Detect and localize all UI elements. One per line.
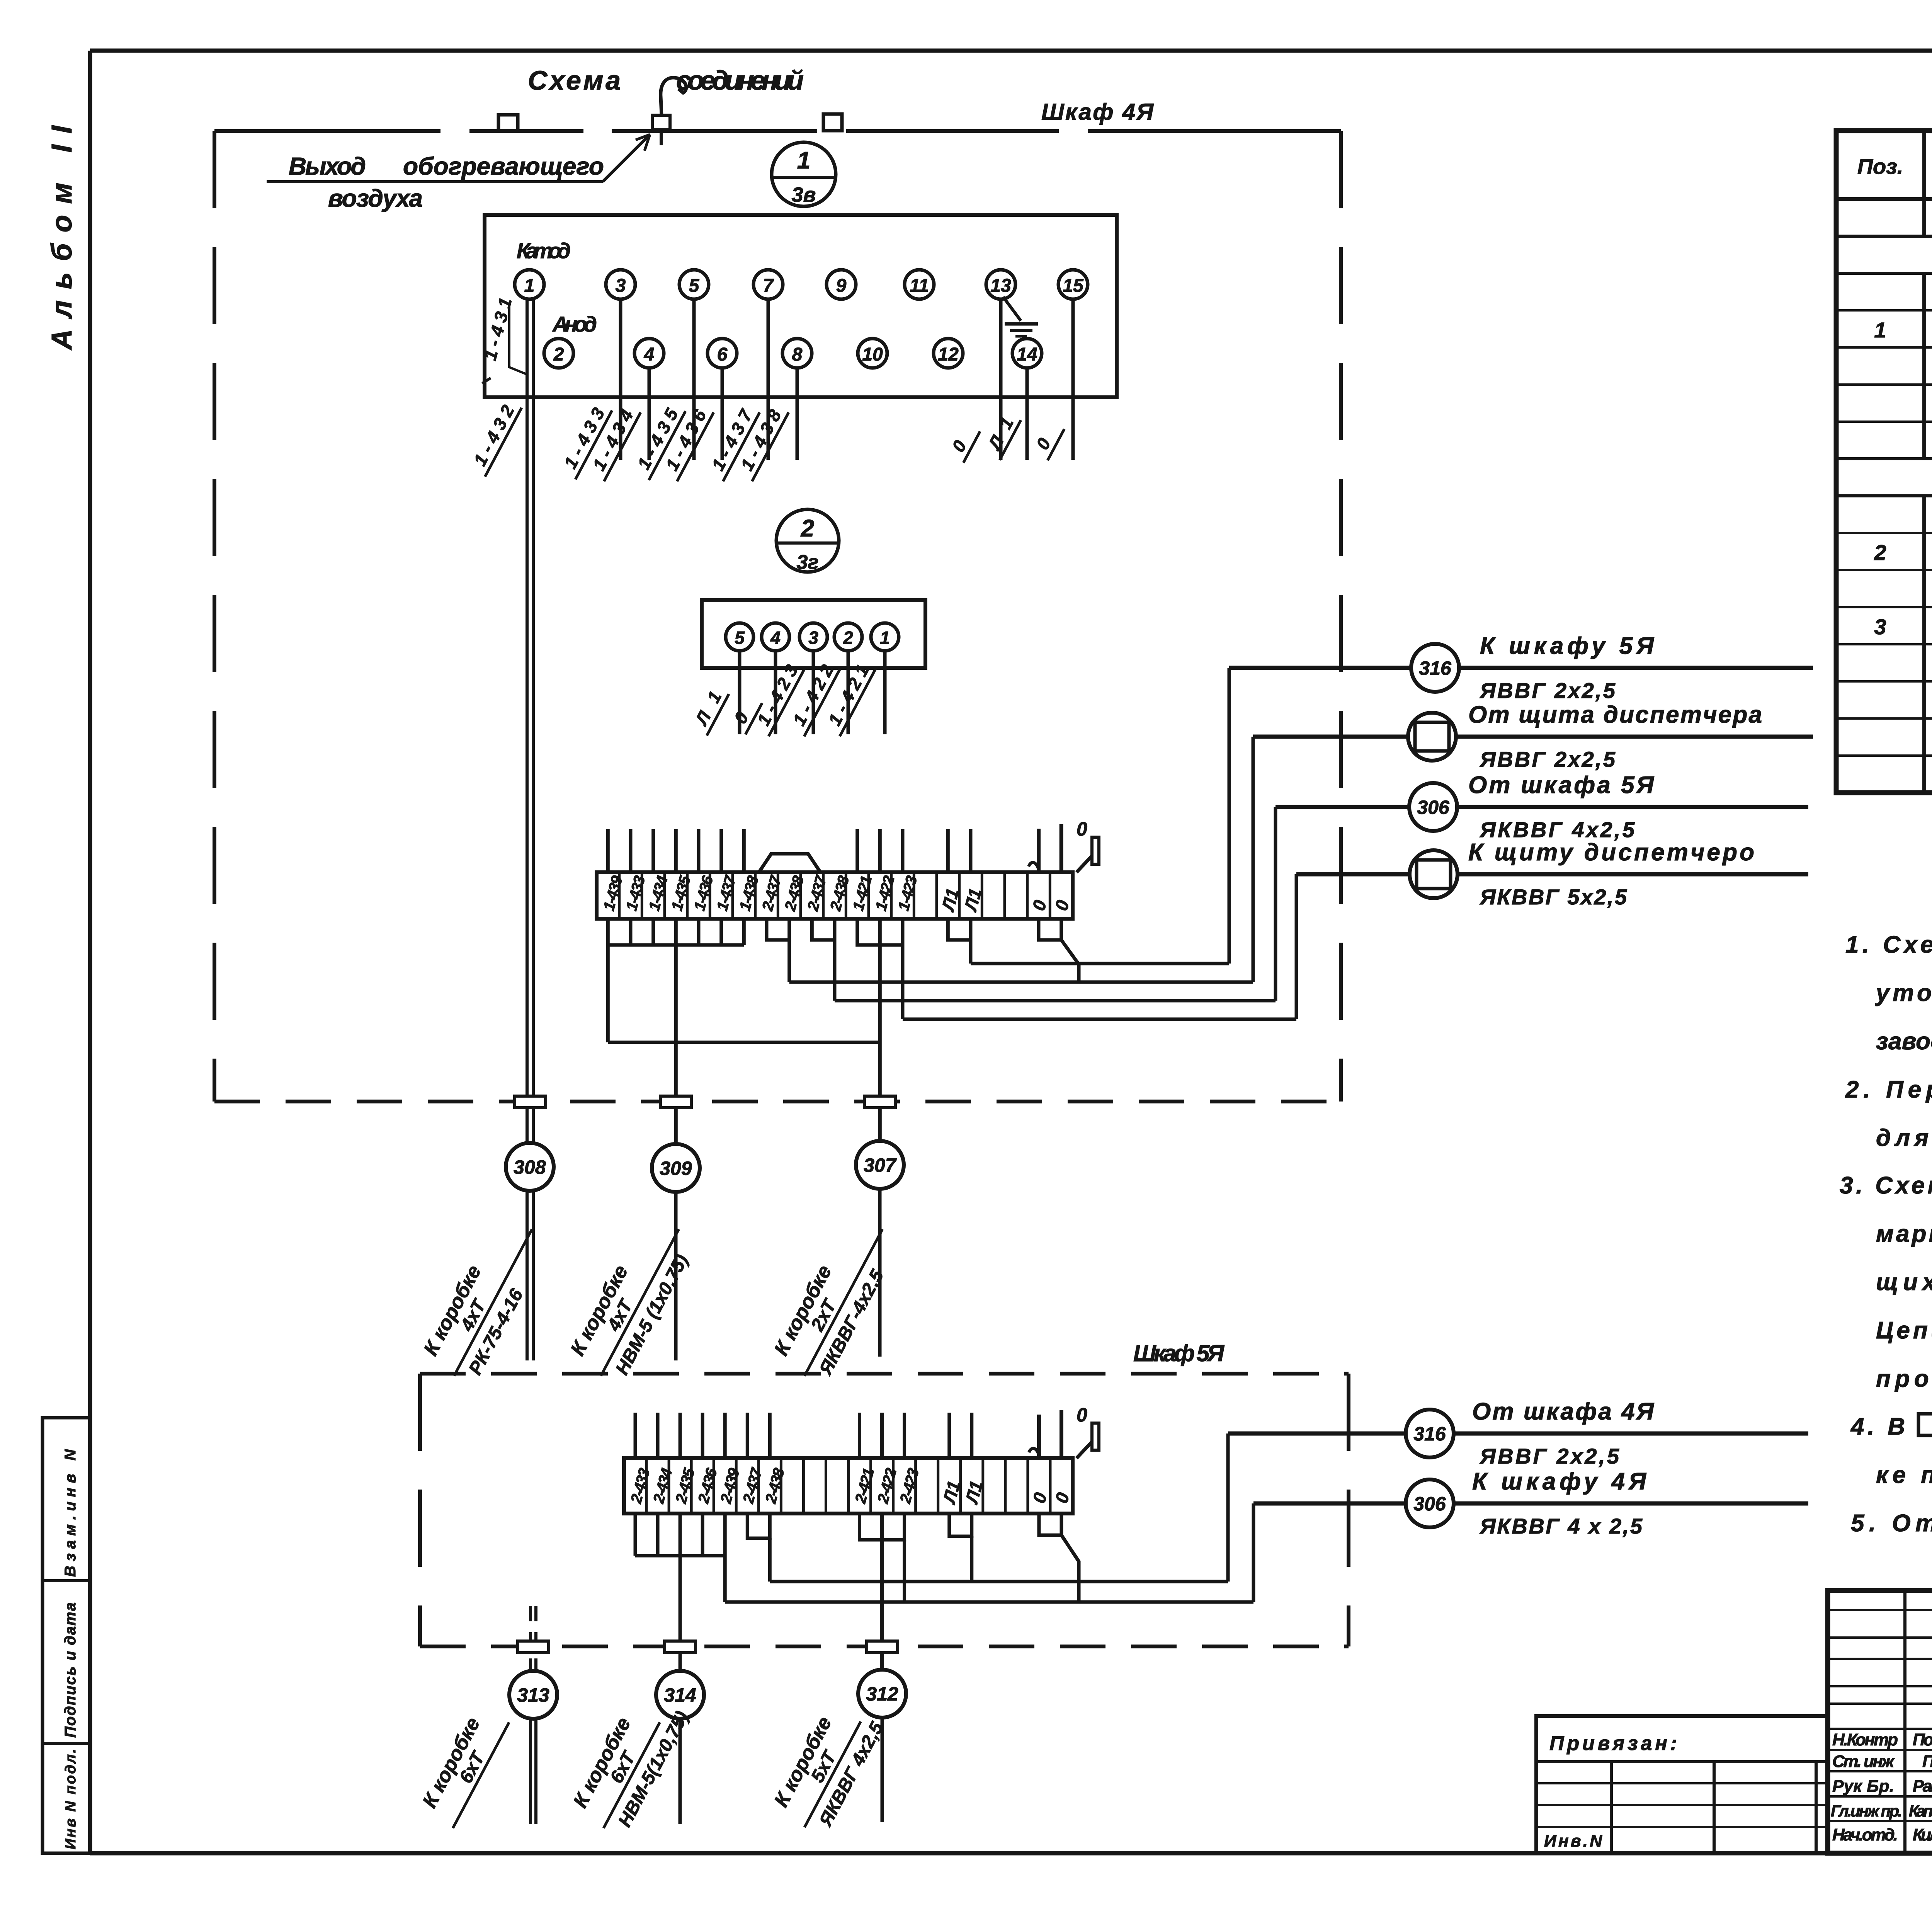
svg-text:К щиту диспетчеро: К щиту диспетчеро [1468,839,1754,866]
svg-text:маркировкой жил, номерами: маркировкой жил, номерами и количеством … [1876,1221,1932,1247]
jumper bridge cells 19-20 0/0 (5А) [1039,1514,1061,1535]
svg-text:1: 1 [880,628,890,648]
wire run A to cable 316 [971,668,1229,964]
cable 316 labels [1479,633,1655,703]
wire pair to cable 313 [531,1606,536,1671]
svg-text:316: 316 [1419,657,1452,679]
cable marker 313 [509,1671,557,1719]
svg-text:11: 11 [910,276,929,296]
svg-text:15: 15 [1063,276,1084,296]
svg-text:Нач.отд.: Нач.отд. [1832,1825,1898,1844]
svg-text:3: 3 [808,628,818,648]
jumper bridge cells 15-16 Л1 (5А) [949,1514,972,1536]
wire stub above strip cell 4 (5А) [701,1413,704,1458]
svg-text:Цепи с маркировками 433: Цепи с маркировками 433 ÷ 437 монтируютс… [1876,1317,1932,1344]
diagonal tie from 0/0 bridge [1061,940,1079,982]
wire label 1-438 [733,402,789,482]
svg-text:1: 1 [1874,318,1886,342]
wire below 314 [679,1719,682,1824]
svg-text:313: 313 [517,1684,549,1706]
wire to cable 307 (from cell 1-422) [878,919,882,1141]
jumper bridge cells 11-13 (5А) [860,1514,905,1540]
left margin stamp strip [43,1418,90,1853]
terminal pin 14 of U1 [1012,339,1042,368]
wire 1-435 from pin 5 [692,299,696,460]
cable marker (square) dispatcher incoming [1408,713,1456,761]
cable marker 306 [1409,783,1457,831]
terminal pin 3 of U1 [606,270,635,299]
svg-text:10: 10 [862,344,883,365]
label Шкаф 4А [1041,99,1154,125]
svg-text:1: 1 [797,147,810,174]
svg-text:4: 4 [644,344,655,365]
signature role labels [1831,1730,1902,1844]
cable marker 309 [652,1144,700,1192]
strip hump over cells 2-437/2-438 [759,854,820,872]
cable line from dispatcher panel [1253,735,1813,739]
svg-text:5: 5 [735,628,745,648]
collar on cabinet edge (309) [660,1096,691,1108]
wire stub above strip cell 13 (4А) [878,829,882,872]
signature names [1909,1730,1932,1844]
wire run B to dispatcher incoming cable [789,737,1253,982]
svg-text:Радюшкин: Радюшкин [1913,1777,1932,1796]
svg-text:ЯКВВГ 4 х 2,5: ЯКВВГ 4 х 2,5 [1479,1514,1643,1538]
terminal pin 5 of U2 [726,623,753,651]
wire label 1-436 [658,402,714,482]
wire stub cell 20 with hook (4А) [1029,829,1039,872]
diagonal tie from 0/0 bridge (5А) [1061,1535,1079,1602]
svg-text:0: 0 [1077,1404,1087,1426]
parts table headers [1857,143,1932,189]
wire stub above strip cell 1 (4А) [606,829,610,872]
jumper bridge cells 8-9 (4А) [767,919,789,940]
section header Материалы [1836,459,1932,496]
svg-text:308: 308 [514,1156,546,1178]
cable marker 307 [856,1141,904,1189]
svg-text:Шкаф 5Я: Шкаф 5Я [1133,1340,1225,1366]
callout circle 2/3г [776,509,839,574]
svg-text:2: 2 [801,515,814,542]
wire run to cable 316 (5А) [770,1433,1228,1582]
terminal pin 3 of U2 [799,623,827,651]
wire Л1 from U2 [738,651,742,734]
svg-text:Катод: Катод [517,238,571,263]
terminal pin 1 of U2 [871,623,899,651]
svg-text:316: 316 [1413,1423,1446,1445]
wire below 309 [674,1192,678,1360]
cabinet Шкаф 4А boundary (dashed) [214,131,1341,1102]
wire stub above strip cell 11 (5А) [858,1413,861,1458]
svg-text:От шкафа 4Я: От шкафа 4Я [1472,1398,1655,1425]
roof marker box 1 on cabinet 4А top [498,115,518,131]
svg-text:7: 7 [763,276,774,296]
wire stub above strip cell 2 (4А) [629,829,633,872]
cable marker 316 (5А) [1406,1410,1454,1457]
svg-text:прововодом НВМ, остальны: прововодом НВМ, остальные проводом ПВ3. [1876,1365,1932,1392]
wire 1-438 from pin 8 [796,368,799,460]
wire stub above strip cell 5 (5А) [723,1413,727,1458]
wire stub above strip cell 4 (4А) [674,829,678,872]
dispatcher outgoing labels [1468,839,1754,909]
title block frame [1828,1590,1932,1853]
svg-text:Привязан:: Привязан: [1549,1732,1677,1755]
wire Л1 from pin 14 [1026,368,1029,460]
wire 1-433 from pin 3 [619,299,622,460]
device U2: terminal box (Шкаф 4А) [702,600,925,668]
svg-text:уточнению в соответствии: уточнению в соответствии с инетрукцией [1875,980,1932,1006]
svg-text:ЯКВВГ 4х2,5: ЯКВВГ 4х2,5 [1479,817,1635,842]
vent pennant symbol on cabinet 4А top [652,78,686,145]
wire to cable 309 (from cell 1-435) [674,919,678,1144]
wire stub above strip cell 15 (5А) [947,1413,951,1458]
svg-text:От шкафа 5Я: От шкафа 5Я [1468,772,1655,798]
wire 0 from pin 15 [1071,299,1075,460]
svg-text:Шкаф 4Я: Шкаф 4Я [1041,99,1154,125]
wire label 0 (pin15) [1029,419,1065,461]
svg-text:3в: 3в [792,183,816,206]
wire label 1-433 [556,400,612,480]
wire stub above strip cell 1 (5А) [634,1413,637,1458]
svg-text:1: 1 [524,276,535,296]
jumper bridge cells 20-21 0/0 (4А) [1039,919,1061,940]
wire stub above strip cell 7 (5А) [768,1413,772,1458]
ground symbol at pin 13 [1003,297,1038,336]
svg-text:13: 13 [990,276,1011,296]
wire stub above strip cell 12 (4А) [855,829,859,872]
svg-text:2: 2 [843,628,853,648]
wire run to cable 306 (5А) [725,1503,1253,1602]
wire stub above strip cell 17 (4А) [969,829,973,872]
svg-text:Гл.инж пр.: Гл.инж пр. [1831,1802,1902,1820]
wire label 0 (U2) [726,693,762,735]
cable marker 314 [656,1671,704,1719]
wire below 308 (РК-75-4-16 pair) [527,1191,533,1360]
svg-text:309: 309 [660,1158,692,1179]
wire 1-434 from pin 4 [648,368,651,460]
wire below 312 [881,1718,884,1822]
cable marker 312 [858,1670,906,1718]
svg-text:2: 2 [1874,540,1886,565]
wire label 1-422 (U2) [785,657,841,737]
terminal pin 11 of U1 [905,270,934,299]
wire run C to cable 306 [835,807,1276,1001]
wire to cable 312 (from cell 2-422) [880,1514,884,1670]
wire stub cell 20 (5А) [1060,1410,1063,1458]
cable 306 labels (5А) [1472,1468,1647,1538]
svg-text:для одного шкафа 4Я.: для одного шкафа 4Я. [1876,1125,1932,1151]
svg-text:4. В: 4. В [1850,1413,1905,1440]
cable line 306 (От шкафа 5А) [1276,805,1808,809]
wire label Л1 (U2) [688,684,729,735]
cable 306 labels [1468,772,1655,842]
wire stub above strip cell 7 (4А) [742,829,746,872]
wire label 1-421 (U2) [821,657,876,737]
wire run D to dispatcher outgoing cable [903,874,1296,1019]
svg-text:Схема: Схема [528,65,621,95]
terminal pin 5 of U1 [679,270,709,299]
collar on cabinet 5А edge (314) [665,1641,696,1653]
wire label 1-435 [630,401,685,480]
svg-text:314: 314 [664,1684,696,1706]
jumper bridge cells 10-11 (4А) [812,919,835,940]
svg-text:14: 14 [1017,344,1037,365]
svg-text:3: 3 [616,276,626,296]
wire 0 from pin 13 [999,299,1003,460]
wire stub above strip cell 14 (4А) [901,829,905,872]
terminal pin 7 of U1 [753,270,783,299]
wire stub cell 21 (4А) [1060,824,1063,872]
section header Прочие изделия [1836,236,1932,273]
svg-text:0: 0 [1077,818,1087,840]
cable 313 destination label [415,1702,509,1828]
svg-text:6: 6 [717,344,728,365]
stub comb below cells 1-5 (5А) [635,1514,725,1556]
collar on cabinet 5А edge (312) [867,1641,898,1653]
collar on cabinet 5А edge (313) [518,1641,549,1653]
cabinet Шкаф 5А boundary (dashed) [420,1374,1349,1646]
wire stub above strip cell 3 (4А) [651,829,655,872]
wire label 0 (pin13) [944,421,980,463]
svg-text:воздуха: воздуха [328,184,423,212]
wire stub above strip cell 6 (4А) [719,829,723,872]
collar on cabinet edge (307) [864,1096,895,1108]
wire stub above strip cell 16 (4А) [946,829,950,872]
wire label 1-437 [704,402,760,482]
wire below 307 [878,1189,882,1357]
wire stub above strip cell 12 (5А) [880,1413,884,1458]
wire 1-421 from U2 [883,651,887,734]
cable 312 destination label [766,1695,888,1840]
wire stub above strip cell 13 (5А) [903,1413,906,1458]
wire to cable 314 (from cell 2-435) [679,1514,682,1671]
svg-text:соединений: соединений [676,65,804,95]
cable 308 destination label [416,1209,556,1389]
svg-text:12: 12 [938,344,959,365]
terminal pin 1 of U1 [515,270,544,299]
cable 314 destination label [565,1685,692,1841]
tie from bridge 11-13 to run (5А) [903,1540,906,1602]
svg-text:306: 306 [1413,1493,1446,1515]
jumper bridge cells 12-14 (4А) [857,919,903,945]
wire label 1-432 [466,398,522,477]
terminal pin 13 of U1 [986,270,1015,299]
svg-text:4: 4 [770,628,781,648]
neutral 0 flag at strip 5А [1077,1404,1099,1458]
wire stub above strip cell 16 (5А) [970,1413,973,1458]
svg-text:Кильметов: Кильметов [1913,1825,1932,1844]
jumper bridge cells 6-7 (5А) [747,1514,770,1538]
wire stub above strip cell 3 (5А) [679,1413,682,1458]
cable marker 316 [1411,644,1459,692]
roof marker box 2 on cabinet 4А top [823,114,842,131]
cable marker (square) dispatcher outgoing [1410,850,1458,898]
svg-text:Поз.: Поз. [1857,154,1903,179]
svg-text:Ст. инж: Ст. инж [1832,1752,1895,1771]
wire run E lower tie (4А) [608,945,880,1042]
svg-text:ке проекта.: ке проекта. [1876,1462,1932,1488]
terminal strip XT (Шкаф 5А) [624,1458,1073,1514]
svg-text:Выход: Выход [289,152,366,180]
wire label 1-423 (U2) [750,657,805,737]
svg-text:Инв.N: Инв.N [1544,1832,1602,1851]
cable 307 destination label [766,1209,906,1389]
cable marker 306 (5А) [1406,1479,1454,1527]
svg-text:завода – изготовителя: завода – изготовителя [1876,1028,1932,1055]
terminal pin 8 of U1 [782,339,812,368]
svg-text:3: 3 [1874,615,1886,639]
stub comb below cells 1-7 (4А) [608,919,744,945]
svg-text:9: 9 [836,276,847,296]
cable line 306 (К шкафу 4А) [1253,1502,1808,1506]
terminal pin 6 of U1 [707,339,737,368]
terminal pin 2 of U2 [834,623,862,651]
terminal pin 15 of U1 [1058,270,1088,299]
wire stub above strip cell 5 (4А) [697,829,701,872]
svg-text:306: 306 [1417,797,1450,818]
tie from Л1 bridge to run (5А) [970,1536,973,1582]
svg-text:307: 307 [864,1154,897,1176]
terminal pin 9 of U1 [827,270,856,299]
cable 309 destination label [563,1209,702,1389]
wire stub above strip cell 2 (5А) [656,1413,660,1458]
part row 1: Блок зажимов [1874,318,1932,342]
wire 1-437 from pin 7 [767,299,770,460]
jumper bridge cells 16-17 Л1 (4А) [948,919,971,940]
left margin album label [46,125,78,351]
terminal pin 10 of U1 [858,339,887,368]
material row 3: Провод НВМ [1874,615,1932,639]
wire 1-436 from pin 6 [721,368,724,460]
svg-text:3г: 3г [797,551,819,574]
wire 0 from U2 [774,651,777,734]
wire label Л1 (pin14) [981,410,1021,460]
cable line to dispatcher board [1296,872,1808,877]
svg-text:ЯКВВГ 5х2,5: ЯКВВГ 5х2,5 [1479,885,1627,909]
svg-text:8: 8 [792,344,803,365]
label Выход обогревающего воздуха with leader [267,134,650,212]
wire 1-423 from U2 [812,651,815,734]
terminal strip XT (Шкаф 4А) [597,872,1073,919]
svg-text:обогревающего: обогревающего [403,152,604,180]
svg-text:Капитульский: Капитульский [1909,1802,1932,1820]
svg-text:Подпись и дата: Подпись и дата [62,1602,79,1738]
svg-text:щих кабелей.: щих кабелей. [1876,1269,1932,1296]
terminal pin 4 of U1 [634,339,664,368]
parts table frame [1836,131,1932,793]
callout circle 1/3в [772,142,836,206]
terminal pin 4 of U2 [762,623,789,651]
wire label 1-434 [585,402,641,482]
wire tag 1-431 with bracket [480,296,526,383]
terminal pin 2 of U1 [544,339,573,368]
device U1: oxygen meter block (Шкаф 4А) [485,215,1117,397]
neutral 0 flag at strip 4А [1077,818,1099,872]
svg-text:312: 312 [866,1683,898,1705]
svg-text:Анод: Анод [552,312,597,336]
wire below 313 pair [531,1719,536,1824]
svg-text:Позднякова: Позднякова [1913,1730,1932,1749]
svg-text:2: 2 [553,344,564,365]
svg-text:5: 5 [689,276,700,296]
material row 2: Провод ПВ3 [1874,540,1932,565]
svg-text:Придуш: Придуш [1922,1752,1932,1771]
wire катод pair 1-431/1-432 from pin 1 [527,299,533,1143]
svg-text:От щита диспетчера: От щита диспетчера [1468,701,1762,728]
attachment table Привязан [1536,1716,1828,1853]
wire stub above strip cell 6 (5А) [746,1413,749,1458]
cable line 316 (К шкафу 5А) [1229,666,1813,670]
terminal pin 12 of U1 [934,339,963,368]
collar on cabinet edge (катод cable) [515,1096,546,1108]
note line 11 with cable square [1850,1413,1932,1440]
svg-text:Н.Контр: Н.Контр [1832,1730,1898,1749]
title Схема соединений [528,65,804,95]
svg-text:2. Перечень изделий и: 2. Перечень изделий и материалов приведе… [1845,1076,1932,1103]
dispatcher incoming labels [1468,701,1762,771]
wire stub cell 19 with hook (5А) [1029,1415,1039,1458]
cable marker 308 [506,1143,554,1191]
cable line 316 (От шкафа 4А) [1228,1432,1808,1436]
wire 1-422 from U2 [847,651,850,734]
cable 316 labels (5А) [1472,1398,1655,1468]
svg-text:Рук Бр.: Рук Бр. [1832,1777,1894,1796]
